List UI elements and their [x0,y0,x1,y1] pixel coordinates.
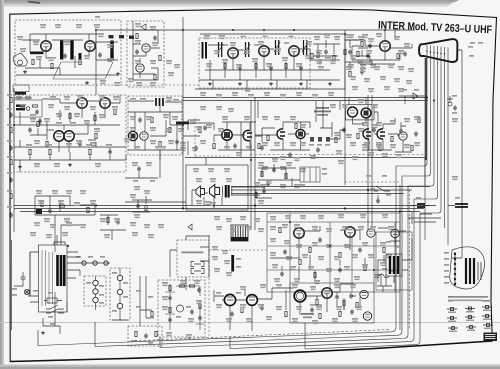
sound mid rail wire [14,140,126,152]
damper tube V29 curly [377,268,395,292]
tuner short bar [79,53,82,60]
vert section parts [279,227,385,277]
title INTER Mod. TV 263-U UHF [378,20,493,37]
mid page long bus wires [14,187,430,212]
tube V19 small [399,132,407,140]
tube V24 PL36 [247,295,258,306]
power transformer top tab [54,242,65,245]
tube V26 EY86 [322,288,332,298]
border bottom emphasis [10,341,492,362]
heater chain1 wires [86,276,104,310]
symbol legend row2 [447,315,492,323]
sound IF transformer (dark bars) [16,105,30,111]
sync feed verticals [258,101,340,137]
osc box right parts [196,300,204,330]
hold control parts [100,215,126,240]
heater h5 [117,289,122,294]
video amp tube V8 PL83 [380,41,390,51]
heater chain box 2 [110,268,130,320]
tube V18 AGC amp [377,129,385,139]
heater h6 [117,303,122,308]
dark double lead [425,58,427,160]
distribuidor cluster [345,175,400,204]
tuner input coil bar [30,52,44,55]
IF labels [204,33,331,70]
second top bus wire [96,30,345,95]
deflection yoke dashed box [177,240,209,277]
ratio det transformer (dark) [156,98,163,106]
power transformer secondary leads [28,225,80,312]
line transformer detail outline [450,247,485,289]
CRT lead bundle (vertical wires) [38,51,448,349]
interruptor label [50,323,55,325]
sound lower labels [26,143,112,167]
power wires down [12,240,61,334]
placa receptora text [314,107,331,116]
audio coupling parts [200,106,260,156]
tube V17 noise inverter [363,129,371,139]
registration mark top-left [28,2,40,4]
osc box labels [162,280,202,338]
sync wires [255,98,378,151]
heater h1 [93,280,98,285]
tuner coil L1 (dark bar) [60,41,63,60]
sound labels [16,95,119,118]
V31 wires [386,231,406,248]
LOT core (dark) [466,258,481,284]
tube V12 video amp [222,130,232,140]
UHF labels [135,23,158,86]
tube V5 EF80 IF1 [228,48,238,58]
tuner gang parallelogram [53,62,113,79]
tuner value labels [17,24,113,62]
outer lead from anode [452,50,462,258]
boost choke (dark bar) [231,255,241,272]
IF strip resistors [224,53,322,70]
tube V30a discriminator [54,131,64,141]
IF transformer T3 [244,42,250,57]
UHF small parts [135,33,161,79]
tube V28 small [363,312,371,320]
tube V13 sync sep [296,129,305,138]
tube V9 EF80 sound IF [77,98,87,108]
heater feed verticals [136,276,154,326]
line out parts [230,305,354,318]
lower mid labels [30,216,264,276]
scattered junction dots [13,29,435,271]
speaker LS2 [210,185,220,198]
symbol legend row3 [448,324,493,333]
heater h2 [93,289,98,294]
placa deflectora text [301,313,314,318]
sync resistor row (dark) [309,137,330,146]
bottom bus left stubs [38,322,305,349]
tuner coil L2 (dark bar) [70,41,73,60]
tomas terminal block [300,167,327,186]
LOT pin column [454,252,456,286]
IF section dashed box [199,38,310,88]
tuner top caps row (dark) [95,16,134,39]
AGC wires [362,118,412,152]
right gap labels [452,118,458,180]
sound IF input block [13,85,42,117]
tuner small resistors [32,47,113,68]
CRT pin lines [427,45,448,55]
AGC parts [391,117,420,150]
line out enclosure [290,283,374,323]
symbol legend row1 [447,306,492,314]
IF strip wires [199,43,340,80]
flyback section enclosure [376,232,412,290]
discriminator labels [30,118,100,146]
tube V11a PCF80 [128,131,137,140]
IF grounds [208,82,332,86]
detector labels [314,34,376,70]
tube V4 UHF mixer [136,64,144,72]
UHF tuner dashed enclosure [127,21,164,87]
ratio det parts [138,117,201,150]
line out mid parts [316,292,358,310]
UHF diode D1 [141,24,146,30]
tuner wires [16,34,118,75]
scanner gray band left [0,0,4,369]
tube V10 EABC80 [100,98,110,108]
IF transformer T2 [217,42,223,57]
width-linearity coils (dark) [416,197,468,207]
focus component F1 [447,95,457,106]
tube V20 vert osc [294,228,304,238]
speaker wires [192,187,260,208]
UHF tuner wires [133,21,160,80]
osc box parts left [165,284,175,330]
sound section dashed enclosure [14,95,126,172]
scanner gray band bottom [0,365,500,369]
dashed vertical lead [409,190,411,330]
tube V11b PCF80 [140,132,148,140]
horizontal osc dashed box [158,280,205,337]
power transformer primary hatching [42,250,53,306]
flyback wires [378,238,412,283]
flyback transformer (dark) [386,254,402,276]
audio bus parts [254,180,272,204]
tube V27 boost [360,290,368,298]
tube V1 PC86 [41,41,51,51]
tube V12b [243,130,252,140]
heater chain2 wires [112,268,128,320]
scanner gray band top [0,0,459,7]
power transformer core (dark) [58,255,65,286]
tube V2 PC88 [85,41,95,51]
bundle small caps [452,105,457,113]
video labels [348,33,410,64]
mid bus drop wires [251,30,400,330]
yoke wires [170,236,210,290]
sound input coil (dark) [15,92,26,95]
IF bottom rail [195,80,345,92]
on-off switch [46,305,64,318]
bus junction dots [95,189,401,213]
linearity wires [408,206,455,225]
heater winding loops [67,256,110,265]
heater h4 [117,275,122,280]
bottom section dashed boundary [209,250,266,337]
vert bus wires [267,213,400,292]
fuse F2 [44,292,62,303]
power transformer outline [39,245,68,312]
audio output transformer (dark bars) [223,185,232,198]
legend extra marks [482,300,492,302]
tuner coil L3 (dark bar) [110,41,113,60]
left margin bus wire [13,88,15,232]
left margin components [7,94,13,218]
mid horizontal bus pair [183,98,428,101]
yoke diode [188,224,192,230]
pilot labels [12,288,38,296]
vert osc transformer (dark) [231,225,248,241]
ratio detector dashed box [128,96,182,155]
bottom dashed bus [130,330,390,342]
tube V15 phase det b [361,108,371,118]
picture tube CRT [419,39,457,62]
osc box center coil [176,305,194,318]
width control cluster [35,196,95,252]
tuner grounds [23,70,120,85]
detector cluster wires [313,40,372,70]
tube V16 keyed AGC [277,129,285,139]
fold line artifact [0,322,500,324]
tuner-IF dashed boundary [121,84,199,86]
tube V7 EF80 IF3 [289,46,299,56]
CRT side note text [468,42,475,57]
upper gap labels [100,60,334,98]
sound takeoff coil [32,105,38,115]
audio coupling wires [183,90,262,208]
LOT pin labels [444,252,449,284]
audio section dashed boundary [195,118,230,156]
video amp wires [345,30,412,64]
ratio det wires [128,101,200,160]
takeoff cluster parts [130,190,152,218]
printer stamp box [484,333,498,342]
vertical section enclosure [267,213,400,292]
osc box parts top [176,285,201,296]
sync parts [260,123,381,157]
LOT caption text [448,296,488,302]
mid partial bus [125,158,206,203]
ratio labels [124,97,202,151]
vert section wires2 [270,226,388,280]
line out wires [214,284,360,331]
mains input cap [14,272,26,286]
IF transformer T5 [302,40,308,55]
tube V30b discriminator [64,131,74,141]
speaker labels [196,178,232,206]
tube V6 EF80 IF2 [259,46,269,56]
discriminator parts [28,121,97,146]
tube V31 booster [391,229,399,237]
sound wires row [14,95,120,125]
line out labels [216,284,362,324]
speaker LS1 [196,186,205,197]
sound box lower parts [14,149,126,172]
MAT rectifier parts [399,89,425,104]
long dashed mid line [250,154,425,156]
audio output enclosure box [186,165,248,210]
audio choke coil (dark) [176,122,189,125]
sync labels [262,99,382,172]
IF transformer T1 (dark bars) [203,42,207,59]
sync lower parts [258,158,300,188]
tube V14 phase det a [348,107,358,117]
tube V3 UHF osc [142,44,150,52]
phase detector box [346,105,375,120]
tube V25 PY81 damper [294,290,306,302]
VHF tuner dashed enclosure [15,20,121,85]
yoke coils [191,262,204,274]
bundle bend-left horizontals [398,166,438,213]
B+ top bus wire [96,17,415,90]
heater chain box 1 [84,276,106,306]
width cluster labels [36,190,96,222]
vert labels [270,214,394,284]
antenna input shape [13,53,27,66]
coupling cap cluster [125,150,160,182]
tube V22 blocking [367,229,375,237]
tube V21 vert out [345,227,355,237]
ajuste dashed box [128,326,162,346]
ion trap label [478,42,483,44]
sound parts [38,109,116,123]
power ground [41,331,45,335]
discriminator wires [30,122,96,147]
pilot lamp [24,289,29,294]
audio box inner labels [193,168,230,205]
video amp parts [344,49,407,58]
V23 labels [216,292,241,294]
mid left labels [130,146,166,238]
tube V23 C17A [224,294,235,305]
heater h3 [93,297,98,302]
long solid mid line [185,158,425,186]
detector cluster parts [317,41,372,76]
IF transformer T4 [274,40,280,55]
video lower labels [348,64,414,92]
AGC labels [362,116,420,158]
yoke label text [182,252,204,254]
